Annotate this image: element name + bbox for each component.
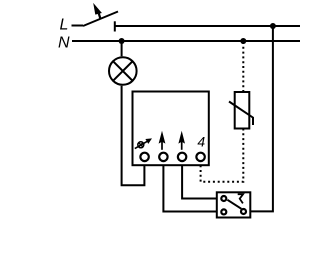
wire N line <box>72 40 300 42</box>
node lamp junction on N <box>119 38 125 44</box>
wire terminal 3 to relay <box>182 165 217 198</box>
svg-text:L: L <box>60 17 69 34</box>
wire lamp to terminal 1 <box>122 86 145 186</box>
varistor R1 stroke <box>229 102 253 126</box>
arrow icon up 2 <box>178 131 185 150</box>
wire L line <box>115 25 300 27</box>
varistor R1 body <box>235 92 250 129</box>
arrow icon up 1 <box>159 131 166 150</box>
dimmer unit U1 box <box>133 92 209 166</box>
terminal 4 <box>196 153 204 161</box>
svg-text:N: N <box>58 35 70 52</box>
relay actuator zigzag <box>238 194 243 203</box>
relay contact pin bottom-left <box>221 209 226 214</box>
node varistor junction on N <box>240 38 246 44</box>
terminal 1 <box>140 153 148 161</box>
lamp E1 <box>109 57 137 85</box>
switch S1 fixed contact <box>114 21 116 31</box>
relay contact blade <box>227 200 241 209</box>
terminal 2 <box>159 153 167 161</box>
wire lamp drop <box>121 41 123 56</box>
wire L stub <box>72 25 84 27</box>
wire terminal 2 to relay <box>163 165 216 211</box>
relay contact pin top-left <box>221 196 226 201</box>
switch S1 blade <box>83 12 118 27</box>
terminal 3 <box>178 153 186 161</box>
wire relay to L line <box>250 26 273 211</box>
node relay junction on L <box>270 23 276 29</box>
relay K1 box <box>217 192 251 217</box>
relay contact pin bottom-right <box>241 209 246 214</box>
wire terminal 4 dashed <box>201 129 244 182</box>
svg-text:4: 4 <box>197 134 205 150</box>
brightness icon <box>135 138 152 148</box>
switch S1 actuation arrow <box>93 3 102 19</box>
wire varistor top dashed <box>242 42 244 92</box>
